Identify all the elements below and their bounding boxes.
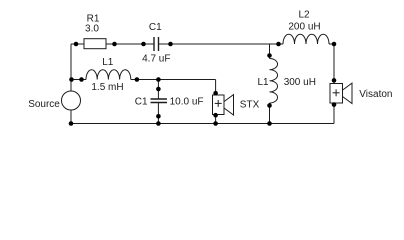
svg-text:C1: C1 — [149, 22, 162, 33]
svg-text:STX: STX — [240, 99, 260, 110]
svg-text:L2: L2 — [298, 9, 310, 20]
svg-text:1.5 mH: 1.5 mH — [91, 82, 123, 93]
svg-text:Visaton: Visaton — [359, 89, 392, 100]
svg-text:Source: Source — [28, 99, 60, 110]
svg-text:L1: L1 — [102, 57, 114, 68]
svg-text:300 uH: 300 uH — [284, 77, 316, 88]
svg-text:10.0 uF: 10.0 uF — [170, 96, 204, 107]
svg-text:200 uH: 200 uH — [288, 21, 320, 32]
svg-text:4.7 uF: 4.7 uF — [142, 54, 170, 65]
svg-text:C1: C1 — [135, 96, 148, 107]
svg-text:3.0: 3.0 — [85, 23, 99, 34]
svg-text:L1: L1 — [257, 77, 269, 88]
